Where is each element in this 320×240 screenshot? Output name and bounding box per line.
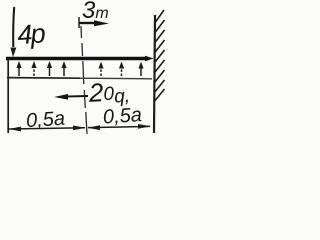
beam end arrowhead at wall [145,56,154,61]
distributed load arrow 4 [61,61,66,76]
svg-text:4p: 4p [16,18,46,50]
distributed load arrow 3 [47,61,52,76]
force arrow 4p [10,7,16,57]
beam [6,57,148,60]
node mid extension dashed line [81,26,87,134]
svg-text:0,5a: 0,5a [25,108,65,133]
wire left extension line [7,60,9,133]
svg-text:0,5a: 0,5a [102,104,142,129]
wall hatching [155,10,165,101]
distributed load arrow 2 [31,61,36,76]
distributed load arrow 5 [98,62,103,77]
dimension arrow 3m [79,17,109,28]
distributed load arrow 6 [119,62,124,77]
dimension line right 0,5a [88,124,151,130]
dimension line left 0,5a [9,126,86,132]
load reference arrow 2.0q [54,94,88,100]
distributed load arrow 1 [16,61,21,76]
wall line [154,15,155,133]
distributed load arrow 7 [138,62,143,77]
wire distributed-load baseline [7,77,80,80]
